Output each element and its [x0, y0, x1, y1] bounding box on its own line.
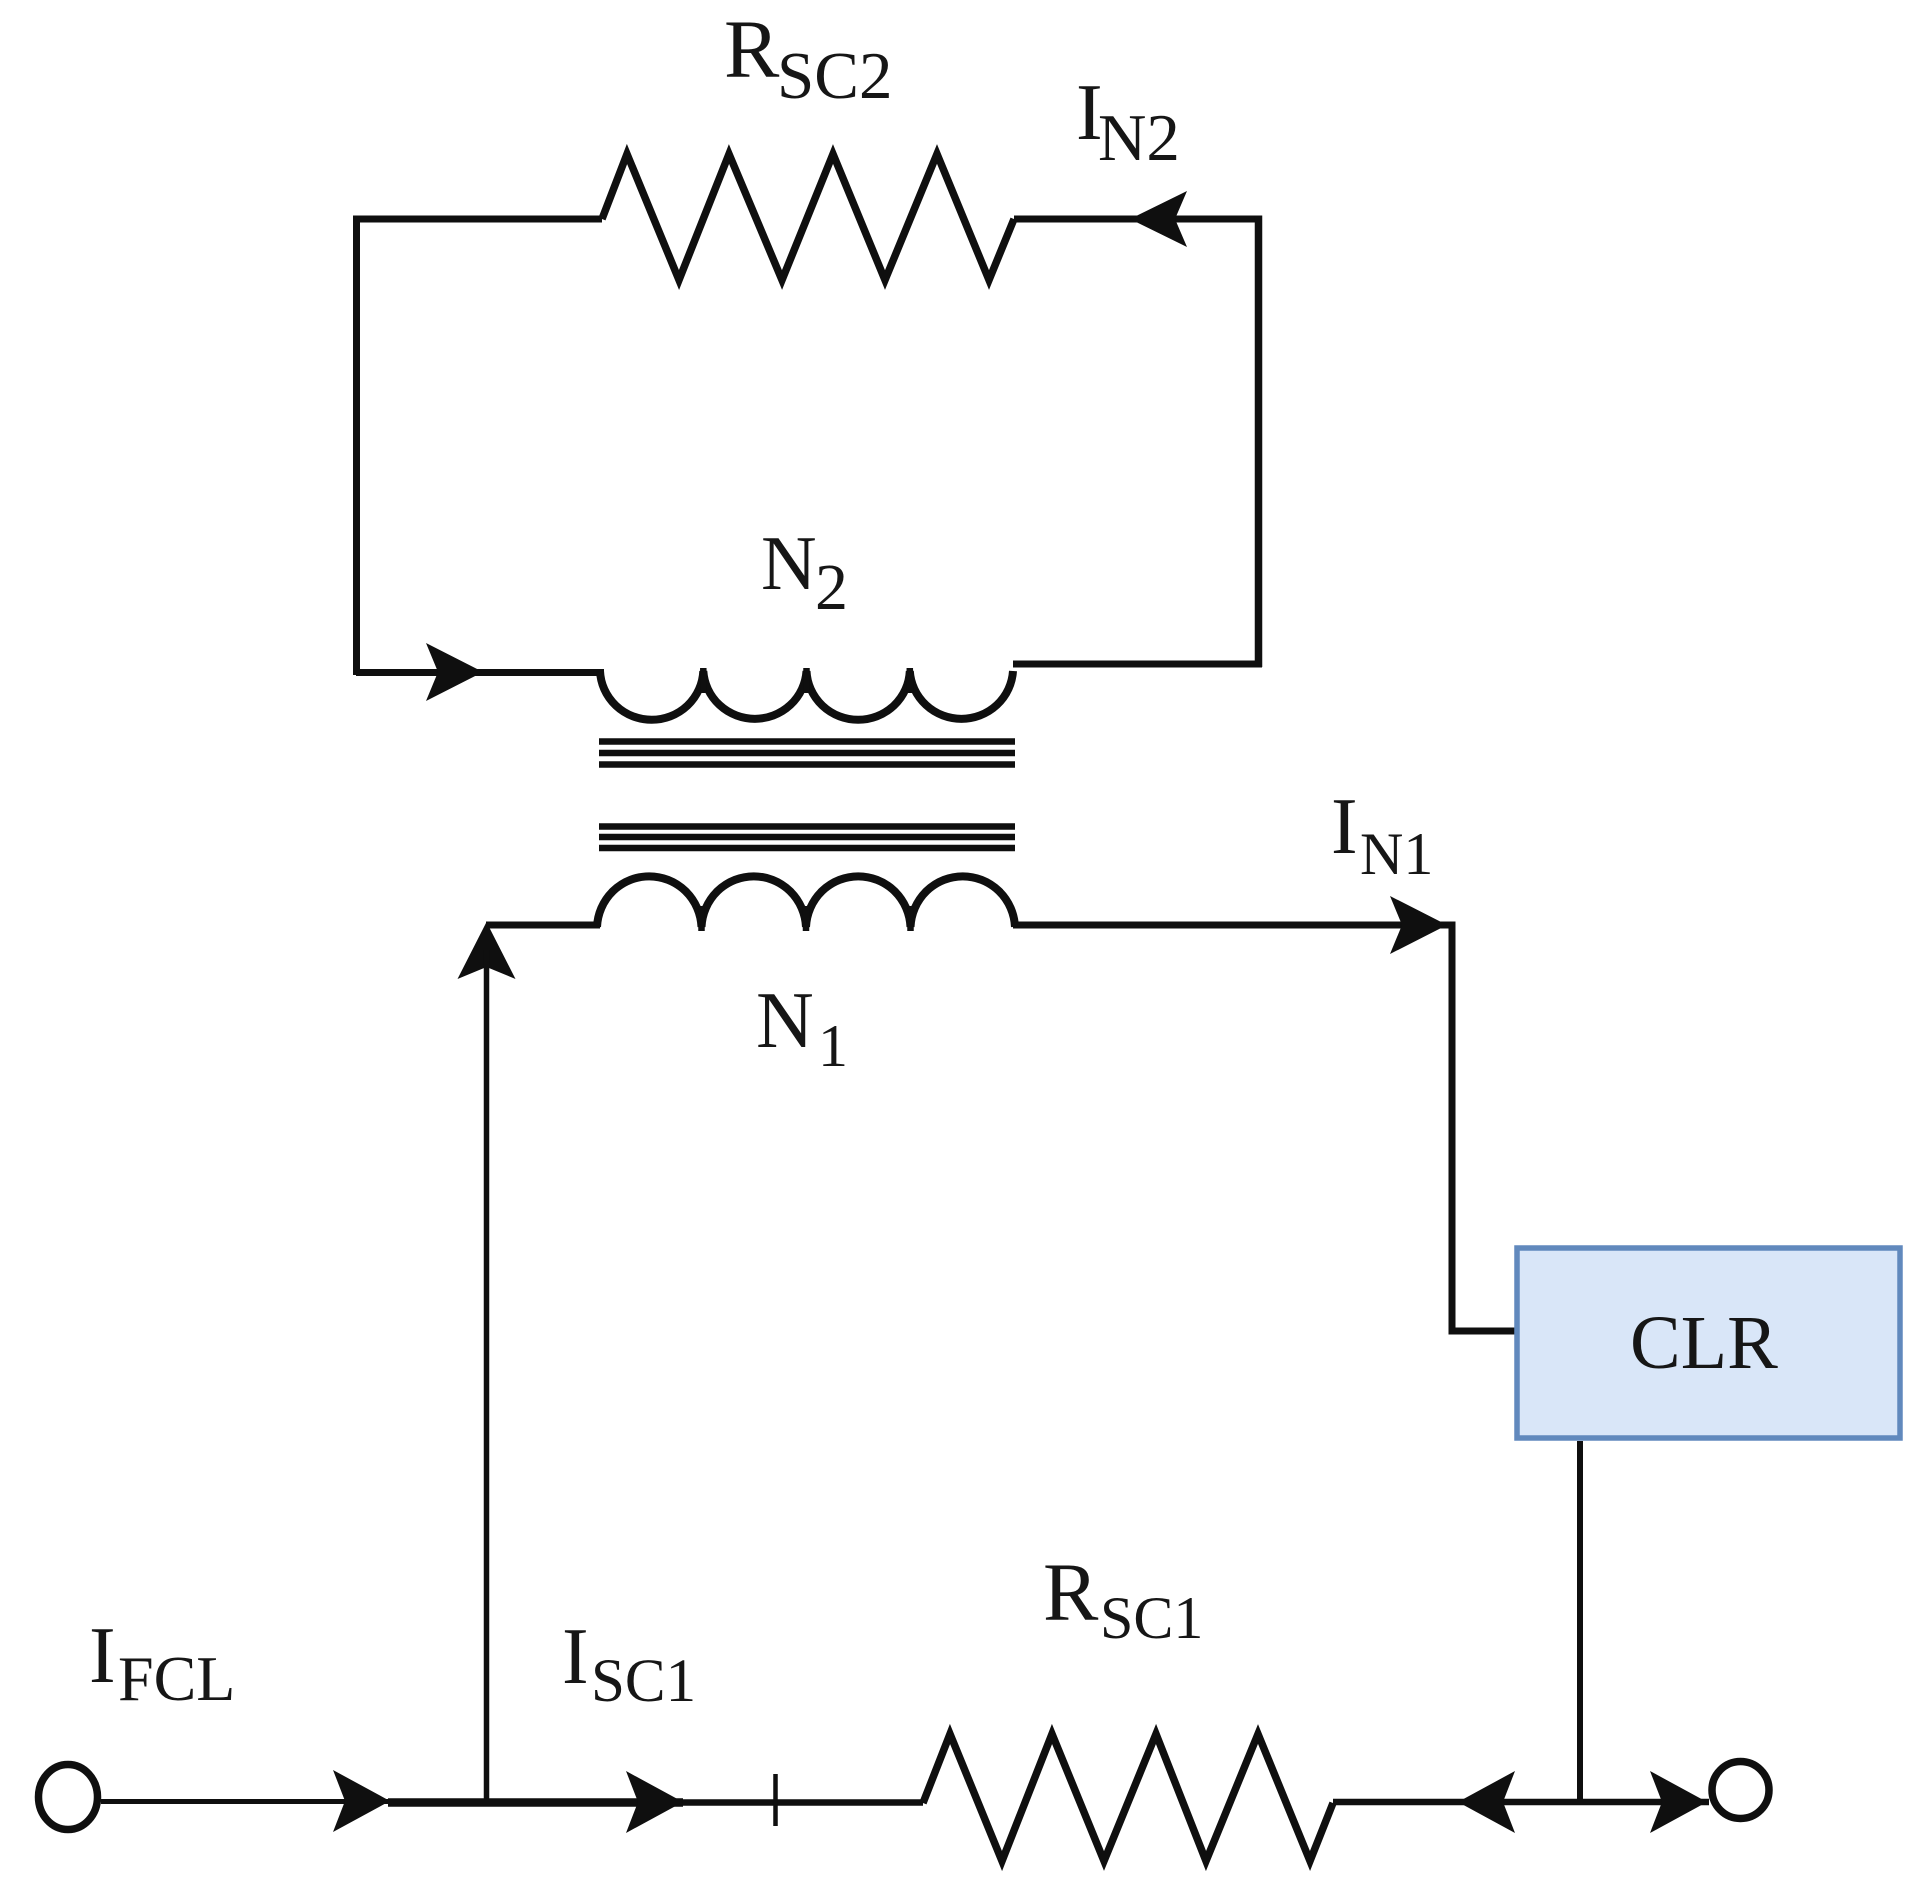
wire bottom to tick and resistor: [683, 1799, 923, 1806]
inductor N2 cusp spikes: [703, 668, 910, 693]
svg-text:I: I: [1331, 783, 1358, 871]
wire ISC1 branch vertical: [484, 950, 490, 1801]
svg-text:I: I: [89, 1612, 116, 1700]
wire CLR stub horizontal: [1449, 1328, 1517, 1335]
svg-text:I: I: [562, 1613, 589, 1701]
arrow on N2 left wire pointing right: [426, 643, 483, 701]
transformer core upper: [599, 742, 1015, 765]
svg-text:SC2: SC2: [777, 39, 892, 113]
inductor N1: [597, 876, 1015, 927]
arrow pointing right toward terminal: [1650, 1771, 1707, 1833]
svg-text:FCL: FCL: [118, 1643, 235, 1714]
CLR box: [1517, 1248, 1900, 1438]
wire bottom right: [1333, 1799, 1709, 1806]
wire top loop right vertical: [1255, 216, 1263, 668]
arrow ISC1 bottom pointing right: [626, 1771, 683, 1833]
arrow pointing left toward RSC1: [1458, 1771, 1515, 1833]
wire N1 right horizontal (IN1): [1013, 922, 1452, 929]
svg-text:1: 1: [818, 1013, 848, 1079]
tick junction: [773, 1774, 778, 1826]
svg-text:R: R: [724, 3, 780, 95]
inductor N1 cusp spikes: [702, 906, 911, 931]
inductor N2: [600, 671, 1013, 720]
wire IN1 vertical down to CLR level: [1449, 922, 1456, 1332]
svg-text:SC1: SC1: [1100, 1585, 1203, 1651]
arrow IN1 pointing right: [1390, 896, 1447, 954]
svg-text:N1: N1: [1360, 821, 1433, 887]
wire RSC2 to top-right corner: [1014, 216, 1262, 223]
arrow ISC1 pointing up: [458, 922, 516, 979]
wire CLR bottom vertical: [1577, 1441, 1583, 1802]
wire bottom bold middle: [388, 1798, 683, 1807]
svg-text:N2: N2: [1098, 101, 1180, 175]
terminal left: [39, 1765, 98, 1830]
svg-text:CLR: CLR: [1630, 1301, 1778, 1385]
transformer core lower: [599, 827, 1015, 849]
wire bottom thin left: [101, 1799, 390, 1804]
svg-text:SC1: SC1: [591, 1648, 696, 1715]
svg-text:N: N: [756, 977, 814, 1065]
svg-text:R: R: [1043, 1546, 1099, 1638]
wire N2 left horizontal: [356, 669, 604, 676]
wire N1 left horizontal: [486, 922, 600, 929]
wire top loop left vertical: [353, 216, 360, 675]
svg-text:N: N: [761, 520, 817, 606]
wire top loop top-left horizontal: [353, 216, 602, 223]
terminal right: [1712, 1762, 1769, 1819]
arrow IN2 pointing left: [1130, 191, 1187, 247]
svg-text:2: 2: [815, 551, 848, 624]
resistor RSC1: [923, 1734, 1333, 1861]
arrow IFCL pointing right: [333, 1770, 390, 1832]
wire N2 right horizontal: [1013, 661, 1262, 668]
resistor RSC2: [602, 154, 1014, 280]
